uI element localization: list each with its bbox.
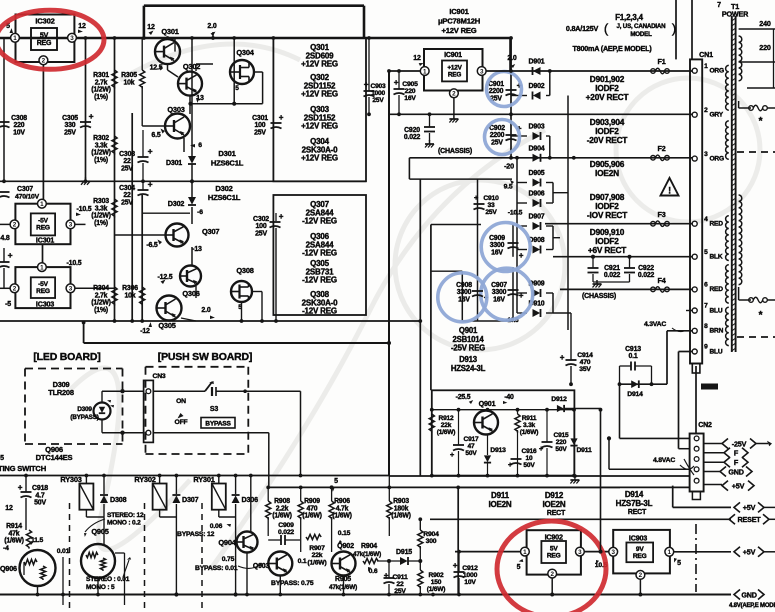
svg-text:μPC78M12H: μPC78M12H (438, 16, 480, 25)
svg-text:(1/2W): (1/2W) (91, 300, 110, 307)
svg-text:DTC144ES: DTC144ES (36, 453, 73, 462)
transistor Q903 (268, 552, 292, 576)
wire +5V upper row (673, 506, 731, 508)
svg-text:(1%): (1%) (94, 94, 108, 101)
svg-text:-25V: -25V (732, 439, 747, 448)
wire -20V rect row to CN1 pin3 (409, 157, 692, 159)
svg-text:C909: C909 (278, 522, 294, 529)
svg-text:C907: C907 (491, 282, 507, 289)
svg-text:D308: D308 (110, 495, 127, 504)
svg-text:(1/6W): (1/6W) (427, 586, 446, 593)
wire CN1 top feeds (675, 0, 677, 59)
wire CN2 pin3 feed (608, 438, 610, 469)
svg-text:IC301: IC301 (36, 236, 54, 245)
svg-text:D306: D306 (242, 495, 259, 504)
svg-text:-6: -6 (197, 209, 203, 216)
svg-text:STEREO: 12: STEREO: 12 (107, 512, 144, 519)
wire R301/R302 column (114, 38, 116, 321)
svg-text:RECT: RECT (628, 509, 647, 516)
transistor Q308 FET (231, 281, 252, 302)
svg-text:D904: D904 (529, 145, 545, 152)
svg-text:50V: 50V (465, 450, 477, 457)
svg-text:BLU: BLU (710, 348, 723, 355)
wire IC901 pin1 feed (389, 70, 421, 72)
svg-text:3.3k: 3.3k (523, 422, 536, 429)
svg-text:BYPASS: 0.75: BYPASS: 0.75 (271, 580, 314, 587)
svg-text:3: 3 (578, 549, 582, 556)
svg-text:2: 2 (639, 572, 643, 579)
svg-text:22k: 22k (312, 552, 323, 559)
svg-text:-5: -5 (5, 301, 11, 308)
svg-text:47: 47 (468, 443, 475, 450)
wire D301-D302 column (191, 38, 193, 156)
svg-text:C915: C915 (554, 432, 569, 439)
svg-text:C901: C901 (488, 81, 504, 88)
wire GND bus to CN2 pin4 (389, 475, 690, 477)
svg-text:C916: C916 (522, 448, 537, 455)
svg-text:+: + (89, 111, 94, 121)
diode D908 (533, 246, 541, 254)
svg-text:+12V REG: +12V REG (442, 26, 477, 35)
svg-text:3: 3 (70, 35, 74, 42)
svg-text:(1%): (1%) (94, 157, 108, 164)
svg-text:REG: REG (633, 553, 647, 560)
svg-text:REG: REG (448, 72, 461, 79)
svg-text:0.75: 0.75 (222, 556, 235, 563)
wire into IC902 pin1 (455, 551, 521, 553)
svg-text:2: 2 (42, 58, 46, 65)
svg-text:+: + (394, 78, 399, 87)
wire dashes right lower (737, 336, 775, 338)
svg-text:D906: D906 (529, 191, 545, 198)
wire IC301 pin3 to column (75, 223, 86, 225)
svg-text:(1/6W): (1/6W) (437, 429, 456, 436)
svg-text:22: 22 (123, 192, 131, 199)
diode D906 (533, 199, 541, 207)
svg-text:10V: 10V (13, 129, 25, 136)
svg-text:-12V REG: -12V REG (302, 249, 337, 258)
svg-text:50V: 50V (34, 500, 46, 507)
svg-text:470: 470 (307, 505, 318, 512)
transistor Q906 (20, 550, 56, 586)
svg-text:25V: 25V (64, 129, 76, 136)
wire IC303 pin3 right (75, 287, 115, 289)
svg-text:+12V REG: +12V REG (301, 90, 338, 99)
wire main left vertical x389 (388, 71, 390, 476)
svg-text:1: 1 (704, 63, 708, 70)
svg-text:6.5: 6.5 (151, 132, 160, 139)
svg-text:-40: -40 (504, 394, 514, 401)
svg-text:C921: C921 (604, 265, 620, 272)
svg-text:47k: 47k (9, 530, 20, 537)
svg-text:REG: REG (36, 225, 50, 232)
svg-text:C910: C910 (483, 195, 499, 202)
svg-text:-25V REG: -25V REG (451, 344, 485, 353)
svg-text:25V: 25V (372, 97, 384, 104)
wire IC302 pin2 down to IC301/IC303 (42, 65, 44, 200)
svg-text:BYPASS: 12: BYPASS: 12 (177, 531, 215, 538)
svg-text:(1/2W): (1/2W) (91, 150, 110, 157)
svg-text:R305: R305 (121, 72, 137, 79)
svg-text:HZS7B-3L: HZS7B-3L (616, 499, 653, 508)
svg-text:3: 3 (704, 151, 708, 158)
op-amp IC303 -5V regulator (15, 267, 70, 308)
svg-text:25V: 25V (491, 139, 503, 146)
wire x430.9 vertical to Q901 box (430, 225, 432, 391)
svg-text:100: 100 (255, 223, 266, 230)
wire left cap bank bus x517 lower (516, 158, 518, 313)
wire label box (458, 486, 689, 488)
svg-text:RED: RED (710, 286, 724, 293)
svg-text:220: 220 (405, 88, 416, 95)
svg-text:3: 3 (611, 549, 615, 556)
svg-text:2: 2 (13, 222, 17, 229)
svg-text:330: 330 (65, 122, 76, 129)
svg-text:D302: D302 (215, 184, 232, 193)
bracket RESET (729, 514, 735, 524)
svg-text:-10.5: -10.5 (77, 206, 92, 213)
svg-text:2200: 2200 (489, 88, 504, 95)
svg-text:Q301: Q301 (161, 27, 178, 36)
svg-text:Q904: Q904 (218, 538, 236, 547)
svg-text:C917: C917 (464, 436, 479, 443)
diode D903 (533, 132, 541, 140)
svg-text:-12V REG: -12V REG (302, 217, 337, 226)
wire D912 output down to GND bus (600, 410, 602, 552)
svg-text:5V: 5V (40, 32, 49, 39)
pin 9 CN1 (692, 349, 697, 354)
svg-text:R911: R911 (522, 415, 537, 422)
pin 2 IC902 (548, 569, 557, 578)
svg-text:4: 4 (704, 216, 708, 223)
wire left edge IC301 pin2 stub (0, 223, 10, 225)
svg-text:ORG: ORG (710, 155, 724, 162)
svg-text:+12V REG: +12V REG (301, 122, 338, 131)
svg-text:300: 300 (426, 538, 437, 545)
svg-text:GRY: GRY (710, 112, 724, 119)
svg-text:IC303: IC303 (36, 300, 54, 309)
pin 2 IC302 (39, 56, 48, 65)
diode D907 (533, 222, 541, 230)
svg-text:TLR208: TLR208 (48, 388, 74, 397)
svg-text:C905: C905 (402, 81, 418, 88)
wire C308 column (3, 38, 5, 181)
svg-text:+: + (148, 146, 153, 156)
svg-text:D913: D913 (490, 447, 506, 454)
svg-text:D902: D902 (529, 83, 545, 90)
svg-text:R905: R905 (335, 576, 351, 583)
svg-text:CN1: CN1 (699, 50, 713, 59)
svg-text:12: 12 (147, 24, 155, 31)
svg-text:IOE2N: IOE2N (595, 168, 619, 178)
svg-text:-20: -20 (504, 162, 514, 171)
svg-text:+: + (519, 251, 524, 260)
svg-text:(1/6W): (1/6W) (307, 559, 326, 566)
wire diode rows short (517, 95, 527, 97)
svg-text:(1/6W): (1/6W) (520, 429, 539, 436)
svg-text:R908: R908 (274, 498, 290, 505)
svg-text:F4: F4 (658, 276, 666, 285)
svg-text:470: 470 (580, 359, 591, 366)
svg-text:4.8V(AEP,E MODEL): 4.8V(AEP,E MODEL) (729, 603, 775, 609)
svg-text:HZS6C1L: HZS6C1L (208, 193, 241, 202)
svg-text:D914: D914 (625, 490, 644, 499)
svg-text:5: 5 (334, 478, 338, 485)
wire IC902/903 grounds (551, 578, 553, 595)
wire Q30x area verticals (141, 195, 143, 321)
capacitor left edge (3, 248, 5, 262)
bracket +5V low (734, 547, 740, 557)
svg-text:0.01: 0.01 (57, 548, 70, 555)
switch S3 (153, 390, 205, 392)
svg-text:(1/6W): (1/6W) (302, 513, 321, 520)
svg-text:1000: 1000 (371, 90, 385, 97)
wire top row in box (432, 409, 574, 411)
svg-text:(1/6W): (1/6W) (272, 513, 291, 520)
node dots d914 row (618, 382, 622, 386)
pin 2 IC303 (10, 284, 19, 293)
wire D914 loop row (620, 383, 668, 385)
diode D904 (533, 154, 541, 162)
svg-text:C914: C914 (577, 352, 593, 359)
svg-text:1: 1 (668, 549, 672, 556)
svg-text:4.7k: 4.7k (336, 505, 349, 512)
pin 3 IC902 (576, 547, 585, 556)
wire CN1 stub down to CN2 (695, 366, 697, 434)
fuse primary lower (738, 287, 740, 300)
bracket +5V upper (704, 484, 722, 486)
svg-text:BRN: BRN (710, 328, 724, 335)
wire reset row (430, 518, 731, 520)
svg-text:C908: C908 (456, 282, 472, 289)
wire main +12V rail y38 (0, 37, 511, 40)
pin 8 CN1 (692, 328, 697, 333)
svg-text:4.3VAC: 4.3VAC (644, 321, 666, 328)
svg-text:+12V REG: +12V REG (301, 154, 338, 163)
svg-text:12: 12 (5, 505, 13, 512)
svg-text:C911: C911 (392, 574, 407, 581)
svg-text:D907: D907 (529, 214, 545, 221)
pin 3 IC302 (68, 33, 77, 42)
pin 5 CN1 (692, 254, 697, 259)
svg-text:-6.5: -6.5 (146, 242, 158, 249)
svg-text:Q902: Q902 (337, 541, 354, 550)
wire C303/C304 column (131, 113, 133, 321)
wire IC902 to IC903 (585, 551, 609, 553)
pin 1 IC903 (665, 547, 674, 556)
svg-text:220: 220 (556, 439, 567, 446)
wire bottom GND bus (0, 594, 731, 596)
svg-text:2.7k: 2.7k (95, 292, 108, 299)
svg-text:R301: R301 (93, 72, 109, 79)
pin 2 CN2 (694, 446, 699, 451)
svg-text:7: 7 (704, 303, 708, 310)
svg-text:Q906: Q906 (0, 564, 17, 573)
svg-text:C305: C305 (62, 115, 78, 122)
svg-text:5: 5 (677, 560, 681, 567)
svg-text:D912: D912 (551, 396, 567, 403)
svg-text:-4: -4 (3, 545, 9, 552)
svg-text:(BYPASS): (BYPASS) (70, 414, 99, 421)
warning triangle (661, 178, 679, 196)
dash dot vertical below CN2 (695, 524, 697, 592)
svg-text:-12V REG: -12V REG (302, 276, 337, 285)
svg-text:IC302: IC302 (35, 17, 54, 26)
svg-text:2.0: 2.0 (507, 55, 516, 62)
pin 1 IC302 (11, 33, 20, 42)
svg-text:CN2: CN2 (698, 422, 712, 429)
svg-text:C304: C304 (119, 185, 135, 192)
resistor R907 (306, 534, 321, 539)
wire Q304 drain (233, 38, 235, 104)
wire dashes right upper (737, 151, 775, 153)
wire -12V feed row y321 (0, 320, 420, 322)
wire CN1 pin9 (679, 351, 693, 353)
svg-text:D903: D903 (529, 124, 545, 131)
svg-text:Q306: Q306 (182, 289, 199, 298)
diode D306 (232, 495, 240, 503)
svg-text:Q905: Q905 (91, 527, 108, 536)
svg-text:OFF: OFF (175, 419, 188, 426)
wire q903/q904 links (246, 553, 248, 595)
svg-text:10k: 10k (124, 79, 135, 86)
svg-text:2.0: 2.0 (207, 23, 216, 30)
svg-text:220: 220 (14, 122, 25, 129)
wire relay supply row y475.5 (0, 475, 389, 477)
svg-text:R904: R904 (361, 543, 377, 550)
svg-text:22: 22 (123, 158, 131, 165)
wire mid cap bank verticals (477, 179, 479, 321)
push sw dashed outline (146, 366, 249, 368)
junction dots (84, 36, 88, 40)
svg-text:35V: 35V (579, 366, 591, 373)
svg-text:3.3k: 3.3k (95, 205, 108, 212)
board dashed separators (69, 503, 71, 612)
decorative watermark omitted from labeling (70, 44, 760, 570)
svg-text:RESET: RESET (738, 515, 762, 524)
svg-text:[LED BOARD]: [LED BOARD] (33, 351, 100, 363)
svg-text:-12: -12 (140, 328, 150, 335)
svg-text:2: 2 (550, 571, 554, 578)
svg-text:25V: 25V (394, 588, 406, 595)
svg-text:+20V RECT: +20V RECT (586, 92, 629, 102)
svg-text:RED: RED (710, 221, 724, 228)
svg-text:R912: R912 (439, 415, 454, 422)
svg-text:16V: 16V (404, 95, 416, 102)
transistor Q307 (166, 224, 189, 247)
wire CN1 pin7 stub (686, 310, 692, 312)
svg-text:RECT: RECT (547, 510, 566, 517)
svg-text:D301: D301 (218, 149, 236, 158)
pin 3 IC903 (609, 547, 618, 556)
svg-text:(1/6W): (1/6W) (4, 538, 23, 545)
pin 2 IC903 (636, 571, 645, 580)
svg-text:+6V RECT: +6V RECT (588, 245, 626, 255)
svg-text:-20V RECT: -20V RECT (587, 135, 628, 145)
wire Q302 collector loop (195, 64, 197, 71)
svg-text:2.2k: 2.2k (276, 505, 289, 512)
svg-text:R903: R903 (393, 498, 409, 505)
svg-text:!: ! (668, 186, 671, 196)
svg-text:16V: 16V (493, 296, 505, 303)
diode D914b (631, 380, 638, 388)
svg-text:R306: R306 (122, 285, 138, 292)
svg-text:S3: S3 (210, 406, 218, 413)
svg-text:2.7k: 2.7k (95, 79, 108, 86)
svg-text:R907: R907 (309, 545, 325, 552)
svg-text:+12V: +12V (447, 65, 462, 72)
svg-text:C913: C913 (625, 346, 641, 353)
red ellipse annotation around IC302 (0, 10, 104, 69)
wire LED board interior (102, 390, 144, 392)
svg-text:3: 3 (69, 286, 73, 293)
diode D905 (533, 179, 541, 187)
svg-text:0.8A/125V: 0.8A/125V (566, 24, 599, 33)
svg-text:C302: C302 (253, 216, 269, 223)
svg-text:Q308: Q308 (236, 266, 253, 275)
wire +20V rect row to CN1 pin1 (511, 70, 693, 72)
wire parts list box (273, 38, 366, 181)
wire +6V rect row to CN1 pin5 (553, 256, 692, 258)
wire ground row left (0, 180, 366, 182)
wire parts list box 2 (273, 195, 366, 315)
svg-text:3.3k: 3.3k (95, 142, 108, 149)
svg-text:(1%): (1%) (94, 220, 108, 227)
diode D909 (533, 289, 541, 297)
wire F4 row to CN1 pin6 (560, 288, 692, 290)
svg-text:1: 1 (40, 264, 44, 271)
wire cap bank bus (510, 38, 512, 158)
svg-text:MODEL: MODEL (630, 31, 652, 38)
svg-text:3: 3 (69, 222, 73, 229)
wire +5V row from IC903 (674, 551, 731, 553)
wire CN1 pin8 4.3VAC (667, 330, 692, 332)
svg-text:MONO : 0.2: MONO : 0.2 (107, 520, 141, 527)
svg-text:2200: 2200 (490, 132, 505, 139)
svg-text:10V: 10V (464, 579, 476, 586)
svg-text:Q903: Q903 (253, 563, 270, 570)
svg-text:D901: D901 (529, 59, 545, 66)
svg-text:0.022: 0.022 (404, 134, 421, 141)
pin 1 IC902 (521, 547, 530, 556)
transistor Q902 (332, 552, 356, 576)
bracket F lower (704, 461, 724, 463)
svg-text:+5V: +5V (743, 503, 756, 512)
pin 4 CN1 (692, 221, 697, 226)
transistor Q904 (237, 532, 258, 553)
svg-text:+: + (18, 483, 23, 492)
pin 4 CN2 (694, 467, 699, 472)
svg-text:F1: F1 (658, 57, 666, 66)
diode D301 zener (188, 156, 196, 164)
wire C305 column (85, 38, 87, 181)
pin 1 IC303 (38, 263, 47, 272)
wire Q303 connections (142, 212, 190, 214)
svg-text:100: 100 (255, 122, 266, 129)
svg-text:D302: D302 (168, 199, 185, 208)
svg-text:C301: C301 (252, 115, 268, 122)
svg-text:(1/6W): (1/6W) (391, 513, 410, 520)
svg-text:D912: D912 (545, 491, 564, 500)
svg-text:RATING SWITCH: RATING SWITCH (0, 464, 46, 473)
svg-text:C902: C902 (489, 125, 505, 132)
wire relay columns (85, 476, 87, 484)
svg-text:Q304: Q304 (236, 48, 254, 57)
wire switch to right (243, 389, 247, 393)
svg-text:F3: F3 (658, 210, 666, 219)
svg-text:0.1: 0.1 (298, 558, 307, 565)
svg-text:2: 2 (704, 107, 708, 114)
